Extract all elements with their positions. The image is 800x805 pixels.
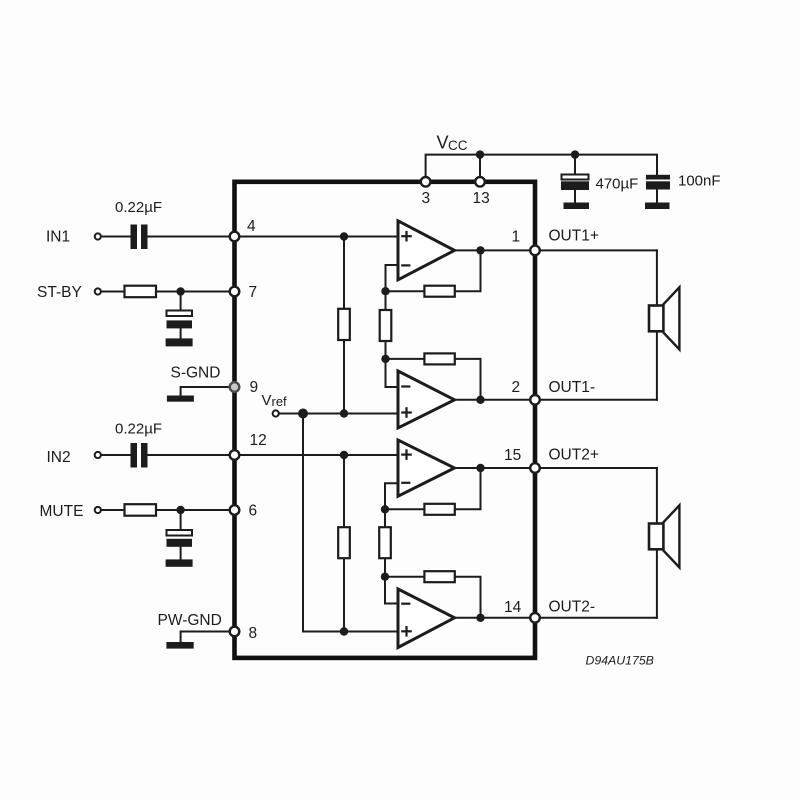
wire 470uF to VCC rail [574, 155, 576, 175]
junction U2 feedback node [381, 355, 389, 363]
svg-text:IN1: IN1 [46, 229, 70, 246]
junction Vref chain node [340, 409, 348, 417]
wire ST-BY input row [101, 291, 235, 293]
wire Vref row to U2 + input [279, 413, 399, 415]
resistor R8 feedback U2 [424, 353, 454, 364]
capacitor C6 100nF [645, 175, 670, 209]
svg-text:470µF: 470µF [596, 176, 639, 193]
wire Vref vertical to pin8 row [302, 414, 304, 632]
wire speaker LS1 branch [656, 250, 658, 306]
IC U1 package outline [235, 182, 536, 658]
ground S-GND symbol [167, 396, 194, 402]
wire IN2 node to pin8 row (R chain A2) [343, 455, 345, 632]
wire U3 feedback node to U4 feedback node (R chain B2) [384, 509, 386, 576]
wire U1 inverting input stub [386, 265, 399, 291]
junction U2 output node [476, 396, 484, 404]
svg-text:D94AU175B: D94AU175B [586, 654, 654, 668]
pin 8 [230, 627, 240, 637]
pin 6 [230, 505, 240, 515]
pin 12 [230, 450, 240, 460]
svg-text:OUT1-: OUT1- [549, 379, 596, 396]
junction U1 output node [476, 246, 484, 254]
wire U1 output to pin1 and speaker [455, 249, 657, 251]
junction IN2 node [340, 451, 348, 459]
capacitor C4 (MUTE) [166, 530, 193, 567]
junction U1 feedback node [381, 287, 389, 295]
svg-text:0.22µF: 0.22µF [115, 421, 162, 438]
wire U4 inverting input stub [385, 577, 398, 604]
pin 3 [421, 177, 431, 187]
wire ST-BY cap stub [180, 292, 182, 312]
wire IN2 to op-amp U3 + input [148, 454, 399, 456]
op-amp A3 [398, 440, 455, 496]
wire VCC rail [426, 155, 657, 177]
junction VCC-470uF [571, 150, 579, 158]
svg-text:ST-BY: ST-BY [37, 284, 82, 301]
wire U1 feedback row [386, 250, 481, 291]
svg-text:MUTE: MUTE [40, 503, 84, 520]
svg-text:V: V [262, 392, 272, 409]
junction MUTE node [176, 506, 184, 514]
svg-text:14: 14 [504, 599, 522, 616]
wire MUTE input row [101, 509, 235, 511]
speaker LS2 [649, 505, 679, 567]
junction Vref node [298, 409, 308, 419]
wire MUTE cap stub [180, 510, 182, 531]
pin 4 [230, 232, 240, 242]
svg-text:2: 2 [512, 379, 521, 396]
svg-text:OUT2+: OUT2+ [549, 447, 599, 464]
junction U3 output node [476, 464, 484, 472]
svg-text:100nF: 100nF [678, 173, 721, 190]
wire U3 output to pin15 and speaker [455, 467, 657, 469]
capacitor C2 0.22uF (IN2) [131, 443, 148, 468]
terminal ST-BY [95, 288, 101, 294]
wire U4 feedback row [385, 577, 481, 618]
op-amp A1 [398, 221, 455, 280]
wire U3 feedback row [385, 468, 481, 509]
pin 14 [530, 613, 540, 623]
wire ST-BY cap to bar [180, 327, 182, 340]
wire U2 inverting input stub [386, 359, 399, 387]
pin 9 [230, 382, 240, 392]
svg-text:4: 4 [247, 218, 256, 235]
wire U1 feedback node to U2 feedback node (R chain B1) [385, 291, 387, 359]
terminal Vref [273, 410, 279, 416]
op-amp A2 [398, 371, 455, 428]
terminal IN2 [95, 452, 101, 458]
svg-text:0.22µF: 0.22µF [115, 199, 162, 216]
op-amp A4 [398, 589, 455, 648]
wire speaker LS2 branch [656, 468, 658, 524]
svg-text:1: 1 [512, 229, 521, 246]
pin 2 [530, 395, 540, 405]
pin 1 [530, 246, 540, 256]
wire U2 feedback row [386, 359, 481, 400]
svg-text:IN2: IN2 [47, 449, 71, 466]
svg-text:ref: ref [272, 394, 288, 409]
wire 470uF lower stub [574, 189, 576, 203]
svg-text:15: 15 [504, 447, 521, 464]
junction U4 feedback node [381, 573, 389, 581]
junction VCC-13 [476, 150, 484, 158]
capacitor C3 (ST-BY) [166, 311, 193, 347]
svg-text:PW-GND: PW-GND [158, 612, 222, 629]
junction IN1 node [340, 232, 348, 240]
resistor R3 vertical chain A upper [338, 309, 350, 340]
wire 100nF lower stub [656, 189, 658, 204]
resistor R9 feedback U3 [424, 504, 454, 515]
capacitor C5 470uF [561, 175, 589, 210]
terminal IN1 [95, 233, 101, 239]
wire pin13 to VCC rail [479, 155, 481, 177]
wire S-GND pin9 [181, 387, 235, 397]
wire U2 output to pin2 and speaker [455, 399, 657, 401]
junction ST-BY node [176, 287, 184, 295]
wire speaker LS2 return [656, 549, 658, 618]
resistor R5 vertical chain A lower [338, 527, 350, 558]
resistor R6 vertical chain B lower [379, 527, 391, 558]
svg-text:8: 8 [249, 625, 258, 642]
svg-text:3: 3 [422, 190, 431, 207]
svg-text:OUT2-: OUT2- [549, 599, 596, 616]
svg-text:12: 12 [250, 432, 267, 449]
terminal MUTE [95, 507, 101, 513]
label Vref [262, 392, 288, 409]
resistor R4 vertical chain B upper [380, 310, 392, 341]
svg-text:13: 13 [473, 190, 490, 207]
wire MUTE cap to bar [180, 546, 182, 561]
wire IN1 node to Vref node (R chain A1) [343, 237, 345, 414]
wire IN1 input row [101, 236, 131, 238]
wire U4 output to pin14 and speaker [455, 617, 657, 619]
capacitor C1 0.22uF (IN1) [131, 225, 148, 250]
speaker LS1 [649, 287, 679, 349]
resistor R10 feedback U4 [424, 571, 454, 582]
resistor R1 (ST-BY) [125, 286, 157, 298]
svg-text:OUT1+: OUT1+ [549, 228, 599, 245]
resistor R2 (MUTE) [125, 504, 157, 516]
pin 15 [530, 463, 540, 473]
wire U3 inverting input stub [385, 483, 398, 509]
wire PW-GND pin8 [181, 632, 235, 644]
ground PW-GND symbol [166, 642, 193, 649]
svg-text:9: 9 [250, 379, 259, 396]
wire speaker LS1 return [656, 331, 658, 400]
svg-text:CC: CC [448, 138, 468, 153]
wire IN2 input row [101, 454, 131, 456]
junction U4 output node [476, 614, 484, 622]
junction pin8 row node [340, 627, 348, 635]
svg-text:7: 7 [249, 284, 258, 301]
svg-text:S-GND: S-GND [171, 365, 221, 382]
pin 7 [230, 287, 240, 297]
label VCC [437, 133, 468, 154]
wire pin8 row to U4 + input [303, 631, 398, 633]
resistor R7 feedback U1 [424, 286, 454, 297]
svg-text:6: 6 [249, 503, 258, 520]
svg-text:V: V [437, 133, 449, 153]
pin 13 [475, 177, 485, 187]
junction U3 feedback node [381, 505, 389, 513]
wire IN1 to op-amp U1 + input [148, 236, 399, 238]
